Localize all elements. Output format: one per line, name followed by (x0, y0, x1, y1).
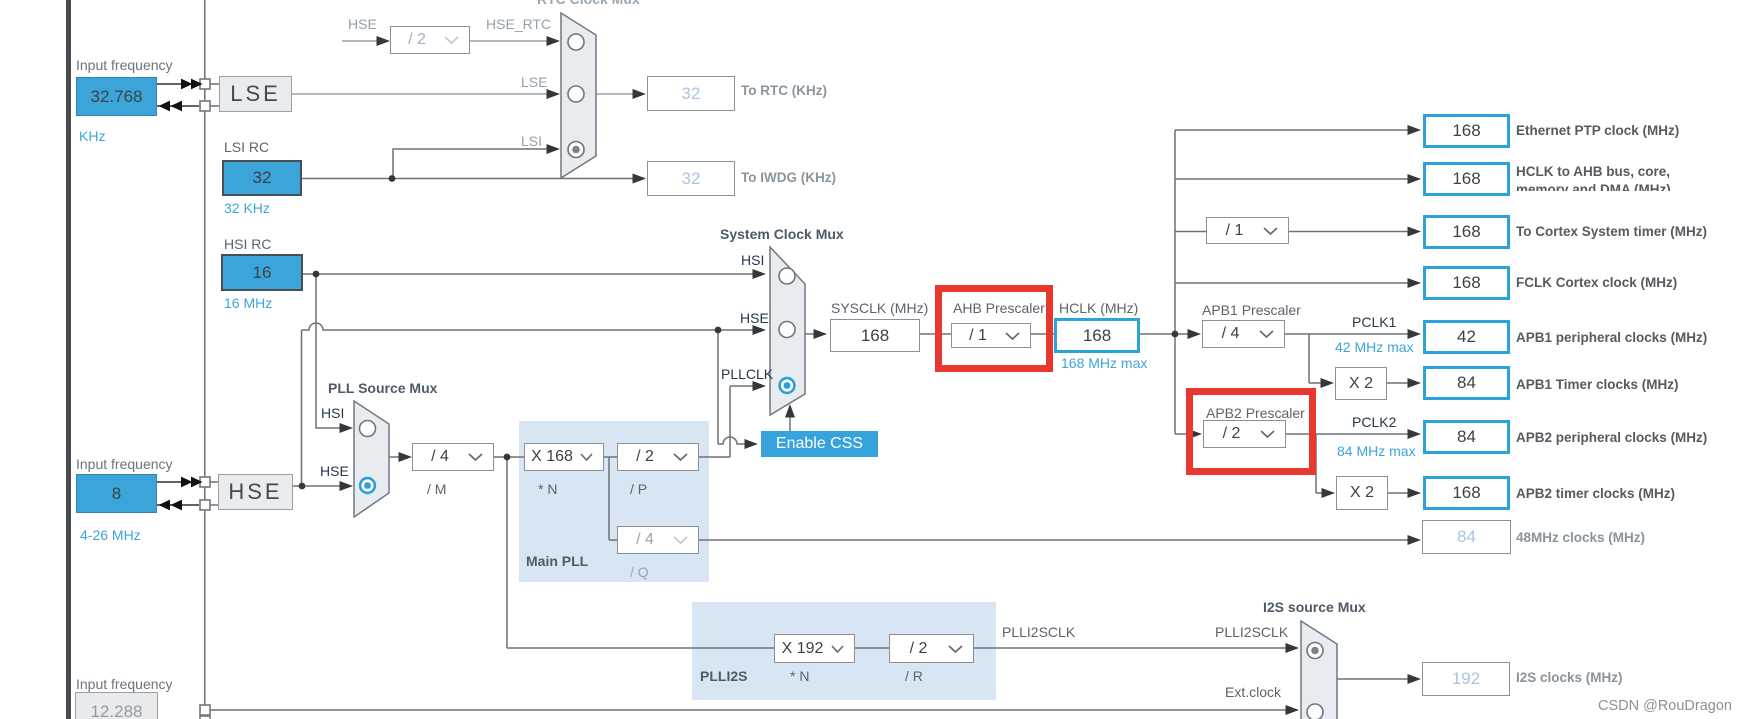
label RTC Clock Mux title clipped (537, 0, 640, 7)
dropdown PLLI2S R /2 (889, 634, 974, 663)
wire 48MHz row (699, 539, 1409, 541)
panel PLLI2S (692, 602, 996, 700)
box SYSCLK value 168 (830, 319, 920, 352)
box HSE input frequency 8 (76, 474, 157, 513)
radio RTC LSI selected (568, 142, 584, 158)
dropdown PLLP /2 (617, 443, 699, 471)
box I2S input frequency 12.288 (75, 692, 158, 719)
arrow double HSE out (159, 500, 171, 511)
label APB1 Prescaler (1202, 302, 1301, 318)
junction dot HSE (299, 483, 306, 490)
label PLLI2SCLK mid (1002, 624, 1075, 640)
wire I2S mux output (1337, 678, 1409, 680)
box APB1 X2 (1335, 367, 1387, 400)
connector square LSE out (200, 101, 210, 111)
box HCLK value 168 (1054, 318, 1140, 353)
arrow PLL mux to /M (399, 452, 413, 462)
label AHB Prescaler (953, 300, 1045, 316)
dropdown APB1 prescaler /4 (1202, 320, 1285, 348)
arrow double LSE out (159, 101, 171, 112)
label Ethernet PTP clock (1516, 123, 1679, 138)
label 84 MHz max (1337, 443, 1416, 459)
box HSI RC 16 (221, 254, 303, 291)
box APB1 timer 84 (1423, 366, 1510, 400)
wire HSE vertical riser (301, 330, 303, 486)
box LSE input frequency 32.768 (76, 77, 157, 116)
button Enable CSS (761, 431, 878, 457)
arrow RTC mux to RTC box (633, 89, 647, 99)
arrow fclk row (1408, 278, 1422, 288)
arrow into SYS mux HSI (753, 269, 767, 279)
radio I2S Ext clock (1307, 704, 1323, 719)
wire LSE to RTC mux (292, 93, 547, 95)
wire APB1 X2 branch (1309, 334, 1409, 383)
label *N plli2s (790, 668, 809, 684)
wire Enable CSS up arrow stem (789, 415, 791, 431)
mux I2S source Mux body (1301, 621, 1337, 719)
wire PLLI2S input (507, 457, 774, 648)
box LSE oscillator (219, 76, 292, 112)
radio I2S PLLI2SCLK selected (1307, 643, 1323, 659)
label 16 MHz (224, 295, 272, 311)
panel Main PLL (519, 421, 709, 582)
label PLLI2SCLK mux input (1215, 624, 1288, 640)
connector square Ext clock (200, 705, 210, 715)
wire PLL mux output (389, 456, 400, 458)
label LSI RC (224, 139, 269, 155)
junction dot HCLK trunk (1172, 331, 1179, 338)
wire APB2 X2 branch (1316, 434, 1409, 493)
wire HCLK trunk vertical (1174, 130, 1176, 434)
label SYSCLK (MHz) (831, 300, 928, 316)
arrow LSI to IWDG box (633, 174, 647, 184)
radio PLL HSE selected (360, 478, 375, 493)
wire Ext clock row (210, 709, 1286, 711)
box LSI RC 32 (222, 160, 302, 196)
box To RTC value 32 (647, 76, 735, 111)
label PCLK2 (1352, 414, 1396, 430)
arrow into SYS mux HSE (753, 325, 767, 335)
label I2S source Mux title (1263, 599, 1366, 615)
label LSI mux input (521, 133, 542, 149)
label Input frequency LSE (76, 57, 173, 73)
wire APB2 feed (1175, 433, 1190, 435)
arrow into RTC mux LSE (547, 89, 561, 99)
wire SYSCLK to AHB prescaler (920, 333, 951, 335)
wire fclk row (1175, 282, 1409, 284)
label PLLCLK sys mux (721, 366, 773, 382)
label Input frequency HSE (76, 456, 173, 472)
label PLLI2S title (700, 668, 747, 684)
box HCLK AHB 168 (1423, 162, 1510, 196)
wire LSI row to IWDG (302, 178, 634, 180)
radio SYS PLLCLK selected (780, 378, 795, 393)
arrow PCLK1 row (1408, 329, 1422, 339)
dropdown APB2 prescaler /2 (1203, 420, 1286, 448)
label To IWDG (KHz) (741, 170, 836, 185)
label 48MHz clocks (1516, 530, 1645, 545)
label System Clock Mux title (720, 226, 844, 242)
connector square HSE out (200, 500, 210, 510)
box APB2 peripheral 84 (1423, 420, 1510, 454)
dropdown AHB prescaler /1 (951, 323, 1031, 348)
connector square LSE in (200, 79, 210, 89)
wire HSE input stub (157, 482, 199, 505)
mux System Clock Mux body (770, 247, 805, 415)
wire ethernet row (1175, 129, 1409, 131)
wire HSE to Enable CSS with hop (718, 330, 745, 444)
label HSE_RTC (486, 16, 551, 32)
arrow cortex timer row (1408, 227, 1422, 237)
wire LSE input stub (157, 83, 182, 85)
junction dot LSI (389, 175, 396, 182)
wire /P up to PLLCLK (699, 386, 754, 457)
wire hclk ahb row (1175, 178, 1409, 180)
radio RTC LSE (568, 86, 584, 102)
box APB1 peripheral 42 (1423, 320, 1510, 354)
dropdown PLLN X168 (524, 443, 604, 471)
label HSI pll mux (321, 405, 344, 421)
label HSI sys mux (741, 252, 764, 268)
arrow APB2 timer row (1408, 488, 1422, 498)
label Ext.clock (1225, 684, 1281, 700)
label APB2 timer clocks (1516, 486, 1675, 501)
arrow into APB1 X2 (1321, 378, 1335, 388)
arrow into APB1 prescaler (1188, 329, 1202, 339)
mux RTC Clock Mux body (561, 13, 596, 178)
junction dot HSI (313, 271, 320, 278)
wire PLLI2SCLK row (974, 647, 1286, 649)
box APB2 X2 (1336, 476, 1388, 510)
arrow into APB2 X2 (1322, 488, 1336, 498)
radio RTC HSE_RTC (568, 34, 584, 50)
arrow double LSE in (181, 79, 193, 90)
red highlight APB2 Prescaler (1186, 388, 1316, 475)
box 48MHz clocks 84 (1422, 520, 1511, 554)
wire HSE_RTC to RTC mux (470, 40, 547, 42)
arrow into RTC mux LSI (547, 144, 561, 154)
label *N (538, 481, 557, 497)
arrow into Enable CSS (745, 439, 759, 449)
arrow PCLK2 row (1408, 429, 1422, 439)
label 42 MHz max (1335, 339, 1414, 355)
label 168 MHz max (1061, 355, 1147, 371)
left dark border bar (66, 0, 72, 719)
label PLL Source Mux title (328, 380, 437, 396)
wire X168 splitter to /P and /Q (604, 457, 617, 540)
connector square bottom partial (200, 716, 210, 719)
label HCLK to AHB two lines clipped (1516, 163, 1740, 191)
label watermark CSDN (1598, 698, 1732, 714)
label 32 KHz (224, 200, 270, 216)
wire APB2 out PCLK2 (1286, 433, 1409, 435)
box I2S clocks 192 (1422, 662, 1510, 696)
box FCLK 168 (1423, 266, 1510, 300)
arrow I2S output row (1408, 674, 1422, 684)
dropdown RTC HSE divider /2 (390, 26, 470, 54)
box Cortex timer 168 (1423, 215, 1510, 249)
label HSE pll mux (320, 463, 349, 479)
arrow double HSE in (181, 477, 193, 488)
label FCLK Cortex clock (1516, 275, 1677, 290)
wire APB1 out PCLK1 (1285, 333, 1409, 335)
label HCLK (MHz) (1059, 300, 1138, 316)
junction dot HSE-CSS (715, 327, 722, 334)
label I2S clocks (1516, 670, 1623, 685)
wire LSE output stub (157, 105, 199, 107)
label APB2 peripheral clocks (1516, 430, 1707, 445)
label KHz (79, 128, 105, 144)
wire LSE square to box (210, 84, 219, 106)
wire HSI row to system mux (303, 273, 754, 275)
arrow into I2S mux Ext (1286, 705, 1300, 715)
wire AHB prescaler to HCLK (1031, 333, 1054, 335)
arrow into SYS mux PLLCLK (753, 381, 767, 391)
label /P (630, 481, 647, 497)
label Main PLL title (526, 553, 588, 569)
arrow hclk ahb row (1408, 174, 1422, 184)
label HSE sys mux (740, 310, 769, 326)
wire HSE to RTC divider (342, 40, 377, 42)
wire HSI branch down to PLL mux (316, 274, 341, 428)
wire RTC mux output (596, 93, 633, 95)
wire HSE row to system mux with hop (302, 323, 755, 330)
wire system mux output (805, 333, 815, 335)
label APB1 peripheral clocks (1516, 330, 1707, 345)
wire /M to X168 (494, 456, 524, 458)
arrow into APB2 prescaler (1189, 429, 1203, 439)
label /M (427, 481, 446, 497)
arrow APB1 timer row (1408, 378, 1422, 388)
label To RTC (KHz) (741, 83, 827, 98)
radio SYS HSE (779, 322, 795, 338)
arrow Enable CSS up (785, 404, 795, 418)
mux PLL Source Mux body (354, 401, 389, 517)
arrow into I2S mux PLLI2SCLK (1286, 643, 1300, 653)
label Input frequency I2S (76, 676, 173, 692)
wire HSE to PLL mux (293, 485, 341, 487)
wire X192 to /R (855, 647, 889, 649)
junction dot PLL input (504, 454, 511, 461)
label /R (905, 668, 923, 684)
wire LSI branch up to RTC mux (393, 149, 547, 179)
box To IWDG value 32 (647, 161, 735, 196)
label HSI RC (224, 236, 271, 252)
box HSE oscillator (218, 474, 293, 510)
radio SYS HSI (779, 268, 795, 284)
wire left rail vertical (204, 0, 206, 719)
arrow HSE_RTC feed (377, 36, 391, 46)
arrow ethernet row (1408, 125, 1422, 135)
dropdown PLLQ /4 (617, 526, 699, 554)
box APB2 timer 168 (1423, 476, 1510, 510)
arrow 48MHz row (1408, 535, 1422, 545)
arrow into PLL mux HSI (340, 423, 354, 433)
red highlight AHB Prescaler (935, 285, 1053, 372)
label /Q (630, 564, 649, 580)
radio PLL HSI (360, 421, 376, 437)
dropdown PLLM /4 (412, 443, 494, 471)
arrow into RTC mux HSE_RTC (547, 36, 561, 46)
dropdown Cortex /1 (1206, 217, 1289, 244)
label PCLK1 (1352, 314, 1396, 330)
connector square HSE in (200, 477, 210, 487)
arrow SYS mux to SYSCLK (814, 329, 828, 339)
label To Cortex System timer (1516, 224, 1707, 239)
box Ethernet PTP 168 (1423, 114, 1510, 148)
arrow into PLL mux HSE (340, 481, 354, 491)
label 4-26 MHz (80, 527, 141, 543)
label LSE mux input (521, 74, 547, 90)
wire HSE square to box (210, 482, 218, 505)
dropdown PLLI2S N X192 (774, 634, 855, 663)
label APB2 Prescaler (1206, 405, 1305, 421)
wire HCLK to APB1 (1139, 333, 1189, 335)
wire cortex timer row (1175, 231, 1409, 233)
label APB1 Timer clocks (1516, 377, 1679, 392)
label HSE rtc feed (348, 16, 377, 32)
